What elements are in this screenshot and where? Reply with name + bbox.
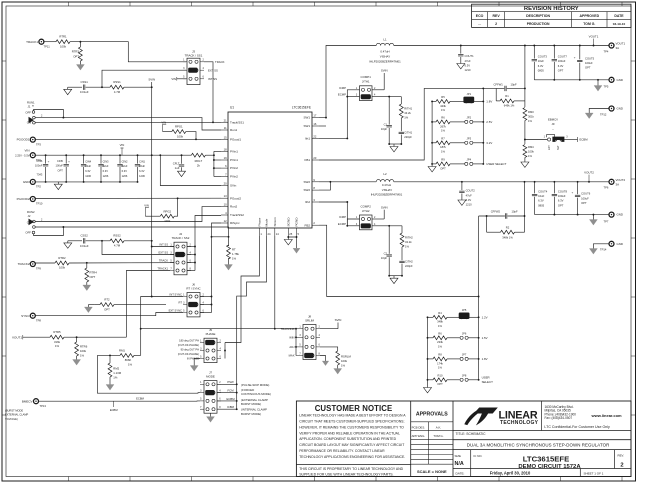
ground below RTR6 xyxy=(73,360,81,366)
test point TP2 GND xyxy=(30,179,35,184)
wire JP8 to bus2 xyxy=(468,379,478,381)
svg-text:VOUT2: VOUT2 xyxy=(616,178,626,182)
ground TP14 xyxy=(589,249,597,255)
svg-text:+: + xyxy=(68,159,70,163)
svg-text:PGOOD1: PGOOD1 xyxy=(17,138,30,142)
svg-text:1206: 1206 xyxy=(139,174,145,178)
resistor RSS2 4.7M xyxy=(110,239,124,243)
resistor R5 423k xyxy=(432,100,436,102)
svg-text:VERIFY PROPER AND RELIABLE OPE: VERIFY PROPER AND RELIABLE OPERATION IN … xyxy=(299,431,400,435)
svg-text:J/TH2: J/TH2 xyxy=(362,209,370,213)
svg-text:BMECV: BMECV xyxy=(22,399,33,403)
test point TP3 PGOOD1 xyxy=(30,137,35,142)
ground on GND bus xyxy=(597,80,599,86)
svg-text:220pF: 220pF xyxy=(405,264,413,268)
wire GND bus ch1 xyxy=(534,79,609,81)
svg-text:J1: J1 xyxy=(28,104,31,108)
svg-text:EXT SYNC: EXT SYNC xyxy=(169,309,182,313)
svg-text:LTC3615EFE: LTC3615EFE xyxy=(523,454,569,463)
svg-text:COUT3: COUT3 xyxy=(538,55,548,59)
svg-text:3A: 3A xyxy=(616,46,620,50)
svg-text:R2: R2 xyxy=(506,226,510,230)
svg-text:6.3V: 6.3V xyxy=(465,63,471,67)
wire SGND PGND join xyxy=(288,236,296,237)
wire Phase pin to J5 xyxy=(224,343,226,359)
svg-text:TP6: TP6 xyxy=(604,186,609,190)
svg-text:(OUT-OF-PHASE): (OUT-OF-PHASE) xyxy=(178,343,199,347)
capacitor COUT2 47uF xyxy=(461,182,463,190)
wire CSS1 to RSS1 xyxy=(86,86,110,88)
svg-text:PVin2: PVin2 xyxy=(230,175,238,179)
wire J8 pin8 to ground xyxy=(320,356,326,362)
capacitor CIN1 22uF xyxy=(137,155,139,163)
svg-text:100k: 100k xyxy=(528,150,534,154)
svg-text:VOUT1: VOUT1 xyxy=(589,34,599,38)
ground on GND bus ch2 xyxy=(592,215,594,220)
svg-text:USER SELECT: USER SELECT xyxy=(486,162,506,166)
inductor L1 0.47uH xyxy=(376,43,394,45)
svg-text:OPT: OPT xyxy=(558,68,564,72)
svg-text:GND: GND xyxy=(617,107,623,111)
svg-text:TOM G.: TOM G. xyxy=(583,22,595,26)
wire COMP2 pin4 to RITH2 xyxy=(372,225,402,227)
svg-text:THIS CIRCUIT IS PROPRIETARY TO: THIS CIRCUIT IS PROPRIETARY TO LINEAR TE… xyxy=(299,467,403,471)
svg-text:TP10: TP10 xyxy=(36,202,43,206)
svg-text:ECBM: ECBM xyxy=(226,397,235,401)
wire route up to J4 pin7 xyxy=(126,271,170,338)
svg-text:Mode: Mode xyxy=(265,218,269,226)
capacitor COUT4 10uF xyxy=(534,182,536,194)
svg-text:100uF: 100uF xyxy=(581,196,589,200)
capacitor CFFW2 10pF xyxy=(479,215,505,217)
svg-text:PRODUCTION: PRODUCTION xyxy=(527,22,550,26)
svg-text:OFF: OFF xyxy=(25,110,31,114)
svg-text:1%: 1% xyxy=(438,366,442,370)
svg-text:RT2: RT2 xyxy=(104,298,110,302)
resistor RTR3 OPT xyxy=(79,42,81,47)
svg-text:C2: C2 xyxy=(384,252,388,256)
svg-text:TP7: TP7 xyxy=(604,219,609,223)
svg-text:1%: 1% xyxy=(341,363,346,367)
svg-text:18: 18 xyxy=(224,147,227,151)
svg-text:Run1: Run1 xyxy=(230,128,238,132)
svg-text:IHLP2020BZERR47M01: IHLP2020BZERR47M01 xyxy=(371,193,403,197)
svg-text:CUSTOMER NOTICE: CUSTOMER NOTICE xyxy=(315,404,393,413)
svg-text:APPROVED: APPROVED xyxy=(579,14,599,18)
ground SGND xyxy=(287,237,289,240)
svg-text:10pF: 10pF xyxy=(512,209,518,213)
svg-text:+: + xyxy=(574,55,576,59)
svg-text:1206: 1206 xyxy=(122,174,128,178)
svg-text:CIN4: CIN4 xyxy=(85,159,91,163)
svg-text:RT: RT xyxy=(232,247,236,251)
svg-text:TRACK / SS1: TRACK / SS1 xyxy=(185,54,203,58)
revision history table xyxy=(472,4,631,27)
svg-text:www.linear.com: www.linear.com xyxy=(591,413,623,418)
svg-text:2.25V - 5.5V: 2.25V - 5.5V xyxy=(15,153,30,157)
wire VIN rail xyxy=(35,154,191,156)
svg-text:COUT7: COUT7 xyxy=(558,55,568,59)
svg-text:ECMP: ECMP xyxy=(338,93,346,97)
svg-text:MODE: MODE xyxy=(206,375,215,379)
node divider left bus xyxy=(431,101,433,163)
ground below RSRLM xyxy=(334,369,342,375)
svg-text:CIN1: CIN1 xyxy=(139,159,145,163)
wire JP7 to bus2 xyxy=(468,358,478,360)
svg-text:1%: 1% xyxy=(113,376,118,380)
svg-text:ECBM: ECBM xyxy=(136,397,145,401)
svg-text:INT SYNC: INT SYNC xyxy=(170,293,183,297)
svg-text:JP1: JP1 xyxy=(467,92,472,96)
wire TRACK1 net to pin21 xyxy=(35,121,221,123)
svg-text:PGND: PGND xyxy=(295,217,299,227)
wire Ith1 to ECMP xyxy=(319,137,347,139)
svg-text:REV.: REV. xyxy=(618,454,625,458)
svg-text:SVIN: SVIN xyxy=(335,318,342,322)
svg-text:VOUT1: VOUT1 xyxy=(12,335,22,339)
svg-text:TRACK2: TRACK2 xyxy=(18,262,30,266)
svg-text:PVin1: PVin1 xyxy=(230,158,238,162)
svg-text:ICMP: ICMP xyxy=(339,215,346,219)
svg-text:CFFW1: CFFW1 xyxy=(494,82,504,86)
svg-text:Fax: (408)434-0507: Fax: (408)434-0507 xyxy=(545,416,573,420)
svg-text:10uF: 10uF xyxy=(538,59,544,63)
svg-text:2.5V: 2.5V xyxy=(486,120,492,124)
svg-text:RTR3: RTR3 xyxy=(72,50,80,54)
svg-text:423k: 423k xyxy=(440,104,446,108)
resistor R2 348k xyxy=(486,216,488,232)
svg-text:TRACK: TRACK xyxy=(215,60,225,64)
svg-text:16: 16 xyxy=(313,122,316,126)
capacitor CIN2 22uF xyxy=(119,155,121,163)
test point TP6 VOUT2 xyxy=(609,179,614,184)
svg-text:1206: 1206 xyxy=(103,174,109,178)
svg-text:SHEET 1 OF 1: SHEET 1 OF 1 xyxy=(584,471,604,475)
svg-text:Phase: Phase xyxy=(258,217,262,226)
ground below COUT1 xyxy=(457,64,465,69)
svg-text:CIRCUIT THAT MEETS CUSTOMER-SU: CIRCUIT THAT MEETS CUSTOMER-SUPPLIED SPE… xyxy=(299,419,404,423)
svg-text:+: + xyxy=(48,159,50,163)
svg-text:ECBM: ECBM xyxy=(580,138,589,142)
svg-text:WIN: WIN xyxy=(289,335,294,339)
resistor RITH1 43.2k xyxy=(399,104,403,118)
svg-text:J9: J9 xyxy=(552,122,555,126)
svg-text:OPT: OPT xyxy=(104,307,110,311)
svg-text:RITH1: RITH1 xyxy=(404,106,412,110)
svg-text:1%: 1% xyxy=(128,362,133,366)
svg-text:90 deg OUT PH: 90 deg OUT PH xyxy=(181,348,200,352)
resistor RTR6 100k xyxy=(76,337,78,342)
ground PGND xyxy=(296,237,298,248)
svg-text:TRACK / SS2: TRACK / SS2 xyxy=(172,236,190,240)
wire VOUT2 rail to R2 node xyxy=(524,182,526,232)
wire TP12 to ground xyxy=(589,109,609,114)
svg-text:R7: R7 xyxy=(441,137,445,141)
svg-text:174k: 174k xyxy=(437,361,443,365)
ground below RM2 xyxy=(106,385,114,391)
test point TP7 GND xyxy=(609,212,614,217)
wire FB1 to divider xyxy=(319,88,496,160)
svg-text:APPLICATION. COMPONENT SUBSTI: APPLICATION. COMPONENT SUBSTITUTION AND … xyxy=(299,437,396,441)
wire TRACK2 to J4 pin5 xyxy=(35,262,55,264)
wire PGood1 xyxy=(35,138,221,140)
wire VOUT2 rail xyxy=(394,181,609,183)
svg-text:---: --- xyxy=(478,22,481,26)
svg-text:SGND: SGND xyxy=(286,217,290,227)
svg-text:RM4: RM4 xyxy=(528,145,534,149)
resistor RM3 301k xyxy=(524,101,526,107)
wire RtSync pin12 to J6 bus xyxy=(212,223,222,313)
svg-text:1%: 1% xyxy=(404,115,408,119)
svg-text:VIN: VIN xyxy=(24,148,29,152)
capacitor CIN6 100uF 7343 xyxy=(45,155,47,163)
wire BMECV to J7 pin5 xyxy=(39,400,201,402)
jumper JP4 xyxy=(465,162,468,165)
svg-text:RtSync: RtSync xyxy=(230,221,240,225)
resistor RTR1 100k xyxy=(56,40,70,44)
svg-text:15: 15 xyxy=(224,135,227,139)
svg-text:OFF: OFF xyxy=(25,231,31,235)
svg-text:Run2: Run2 xyxy=(230,205,238,209)
test point TP9 TRACK2 xyxy=(30,262,35,267)
wire SVIN to J4 pin1 INT SS xyxy=(152,241,174,247)
svg-text:R8: R8 xyxy=(438,353,442,357)
svg-text:EXT: EXT xyxy=(548,145,551,150)
svg-text:47uF: 47uF xyxy=(465,59,471,63)
svg-text:6.3V: 6.3V xyxy=(139,169,145,173)
resistor RITH2 43.2k xyxy=(400,233,404,247)
svg-text:TP11: TP11 xyxy=(44,45,51,49)
svg-text:VIN: VIN xyxy=(161,120,166,124)
wire JP6 to bus2 xyxy=(468,337,478,339)
svg-text:10pF: 10pF xyxy=(381,127,387,131)
svg-text:GND: GND xyxy=(617,78,623,82)
jumper JP8 xyxy=(460,378,463,381)
svg-text:100uF: 100uF xyxy=(56,164,64,168)
jumper JP1 xyxy=(465,100,468,103)
capacitor COUT7 100uF OPT xyxy=(553,46,555,59)
svg-text:301k: 301k xyxy=(528,115,534,119)
capacitor CSS2 0.01uF xyxy=(83,238,85,243)
svg-text:1%: 1% xyxy=(528,154,532,158)
svg-text:DUAL 3A MONOLITHIC SYNCHRONOUS: DUAL 3A MONOLITHIC SYNCHRONOUS STEP-DOWN… xyxy=(467,443,610,448)
svg-text:3.2V: 3.2V xyxy=(486,141,492,145)
ground below divider 2 xyxy=(427,380,429,388)
svg-text:JP3: JP3 xyxy=(467,136,472,140)
svg-text:RT / SYNC: RT / SYNC xyxy=(186,287,200,291)
svg-text:OPT: OPT xyxy=(440,166,446,170)
svg-text:INT SS: INT SS xyxy=(208,77,217,81)
svg-text:PGOOD2: PGOOD2 xyxy=(17,197,30,201)
svg-text:VISHAY: VISHAY xyxy=(380,55,390,59)
ground below CFLT xyxy=(178,171,186,176)
svg-text:RTR4: RTR4 xyxy=(90,271,98,275)
svg-text:43.2k: 43.2k xyxy=(405,240,412,244)
svg-text:0.01uF: 0.01uF xyxy=(80,90,89,94)
resistor RTR5 316k xyxy=(50,335,64,339)
svg-text:COUT6: COUT6 xyxy=(581,192,591,196)
svg-text:187k: 187k xyxy=(440,145,446,149)
svg-text:VOUT1: VOUT1 xyxy=(616,41,626,45)
svg-text:Friday, April 30, 2010: Friday, April 30, 2010 xyxy=(490,471,531,476)
svg-text:SELECT: SELECT xyxy=(482,380,493,384)
svg-text:CIN2: CIN2 xyxy=(122,159,128,163)
ground at J8 pin8 xyxy=(322,361,329,366)
svg-text:R10: R10 xyxy=(438,374,443,378)
svg-text:6.3V: 6.3V xyxy=(558,64,564,68)
wire RSS1 to SVIN xyxy=(124,86,152,88)
wire ICMP loop xyxy=(347,90,359,97)
Linear Technology logo xyxy=(464,408,487,426)
wire J8 pin6 to RSRLM xyxy=(320,347,338,351)
svg-text:19: 19 xyxy=(224,156,227,160)
svg-text:100k: 100k xyxy=(177,134,184,138)
ground at RT2 xyxy=(88,304,94,306)
svg-text:L1: L1 xyxy=(383,37,387,41)
svg-text:25: 25 xyxy=(289,232,292,236)
svg-text:RTR6: RTR6 xyxy=(80,344,88,348)
svg-text:R1: R1 xyxy=(505,94,509,98)
svg-text:DEMO CIRCUIT 1572A: DEMO CIRCUIT 1572A xyxy=(518,464,581,470)
svg-text:10pF: 10pF xyxy=(381,256,387,260)
wire node to J4 pin3 xyxy=(102,241,174,255)
resistor R10 OPT xyxy=(428,379,434,381)
svg-text:RM3: RM3 xyxy=(528,110,534,114)
svg-text:CFFW2: CFFW2 xyxy=(491,209,501,213)
resistor RM2 1.13M xyxy=(109,355,111,363)
svg-text:m: m xyxy=(32,105,34,108)
resistor RM1 866K xyxy=(97,354,120,356)
svg-text:03-19-10: 03-19-10 xyxy=(613,22,626,26)
svg-text:Ith1: Ith1 xyxy=(305,137,310,141)
svg-text:TECHNOLOGY APPLICATIONS ENGINE: TECHNOLOGY APPLICATIONS ENGINEERING FOR … xyxy=(299,455,405,459)
svg-text:4.7M: 4.7M xyxy=(114,244,121,248)
svg-text:24: 24 xyxy=(268,232,271,236)
svg-text:OPT: OPT xyxy=(585,66,591,70)
test point TP14 GND xyxy=(609,241,614,246)
svg-text:TP13: TP13 xyxy=(40,404,47,408)
svg-text:10: 10 xyxy=(224,203,227,207)
svg-text:REV: REV xyxy=(492,14,500,18)
svg-text:1.5V: 1.5V xyxy=(482,336,488,340)
resistor RTR4 OPT xyxy=(86,263,88,268)
svg-text:COUT2: COUT2 xyxy=(466,189,476,193)
svg-text:TRACK: TRACK xyxy=(159,259,168,263)
svg-text:1%: 1% xyxy=(438,344,442,348)
title rows xyxy=(453,430,631,432)
svg-text:2: 2 xyxy=(620,463,623,469)
svg-text:J2: J2 xyxy=(28,214,31,218)
svg-text:13: 13 xyxy=(224,194,227,198)
svg-text:22uF: 22uF xyxy=(139,164,145,168)
svg-text:SUPPLIED FOR USE WITH LINEAR T: SUPPLIED FOR USE WITH LINEAR TECHNOLOGY … xyxy=(299,472,393,476)
svg-text:A.K.: A.K. xyxy=(436,425,442,429)
capacitor C/TH1 220pF xyxy=(399,131,404,133)
svg-text:(OUT-OF-PHASE): (OUT-OF-PHASE) xyxy=(178,352,199,356)
svg-text:MAX: MAX xyxy=(289,354,295,358)
ground below RTR4 xyxy=(83,285,91,291)
svg-text:COUT4: COUT4 xyxy=(538,190,548,194)
svg-text:22uF: 22uF xyxy=(85,164,91,168)
wire JP4 to bus / net USER SELECT xyxy=(473,163,483,165)
wire RtSync branch to RT xyxy=(212,236,229,238)
resistor RSS1 4.7M xyxy=(110,85,124,89)
svg-text:20: 20 xyxy=(224,182,227,186)
svg-text:LTC3615EFE: LTC3615EFE xyxy=(292,106,311,110)
svg-text:PHASE: PHASE xyxy=(206,332,216,336)
svg-text:100uF: 100uF xyxy=(558,59,566,63)
svg-text:TP12: TP12 xyxy=(600,112,607,116)
svg-text:OPT: OPT xyxy=(437,382,443,386)
svg-text:CIN6: CIN6 xyxy=(36,159,42,163)
svg-text:23: 23 xyxy=(313,156,316,160)
capacitor CIN3 22uF xyxy=(100,155,102,163)
svg-text:TITLE: SCHEMATIC: TITLE: SCHEMATIC xyxy=(456,432,487,436)
node FB1 select bus xyxy=(482,88,484,163)
jumper JP3 xyxy=(465,141,468,144)
svg-text:VISHAY: VISHAY xyxy=(382,188,392,192)
wire TP14 to ground xyxy=(593,244,609,249)
svg-text:100k: 100k xyxy=(341,359,348,363)
wire node vertical to TRACKING xyxy=(140,329,142,356)
resistor RSRLM 100k xyxy=(336,351,340,365)
wire comp2 bottom xyxy=(389,275,402,277)
svg-text:SVIN: SVIN xyxy=(381,205,388,209)
svg-text:1.78k: 1.78k xyxy=(232,252,239,256)
svg-text:TP8: TP8 xyxy=(36,318,41,322)
svg-text:100uF: 100uF xyxy=(558,194,566,198)
wire Ith2 to ECMP2 xyxy=(319,201,347,203)
svg-text:SVIN: SVIN xyxy=(148,78,155,82)
resistor R1 649k xyxy=(495,88,497,101)
resistor R9 OPT xyxy=(432,163,436,165)
wire COMP1 pin4 to RITH1 xyxy=(372,96,401,98)
wire RTR5 to TRACK1 route xyxy=(64,336,126,338)
svg-text:GND: GND xyxy=(23,180,31,184)
ground comp1 xyxy=(390,147,398,152)
svg-text:6.3V: 6.3V xyxy=(103,169,109,173)
svg-text:OPT: OPT xyxy=(90,275,96,279)
svg-text:100uF: 100uF xyxy=(35,164,43,168)
svg-text:1%: 1% xyxy=(55,344,60,348)
svg-text:6.3V: 6.3V xyxy=(85,169,91,173)
capacitor CIN5 100uF OPT xyxy=(65,155,67,163)
ground on GND rail xyxy=(57,182,59,184)
svg-text:6.3V: 6.3V xyxy=(538,199,544,203)
svg-text:RM1: RM1 xyxy=(119,348,125,352)
svg-text:100k: 100k xyxy=(60,44,67,48)
svg-text:ECBM: ECBM xyxy=(110,408,119,412)
svg-text:IHLP2020BZERR47M01: IHLP2020BZERR47M01 xyxy=(369,60,401,64)
wire JP1 to bus / net 1.8V xyxy=(473,100,483,102)
ground below RM4 xyxy=(521,162,529,167)
svg-text:1%: 1% xyxy=(438,324,442,328)
svg-text:1.8V: 1.8V xyxy=(486,100,492,104)
ground TP12 xyxy=(585,113,593,119)
svg-text:348k: 348k xyxy=(437,320,443,324)
capacitor COUT5 100uF OPT polarized xyxy=(579,46,581,60)
wire JP5 to bus2 xyxy=(468,316,478,318)
svg-text:0805: 0805 xyxy=(538,203,544,207)
wire ICMP2 loop xyxy=(347,219,359,226)
wire TRACK1 to RTR1 xyxy=(44,41,56,43)
resistor R8 174k xyxy=(428,358,434,360)
svg-text:VIN: VIN xyxy=(144,204,149,208)
svg-text:1%: 1% xyxy=(232,256,237,260)
svg-text:L2: L2 xyxy=(383,172,387,176)
svg-text:COUT8: COUT8 xyxy=(558,190,568,194)
test point TP10 PGOOD2 xyxy=(30,197,35,202)
